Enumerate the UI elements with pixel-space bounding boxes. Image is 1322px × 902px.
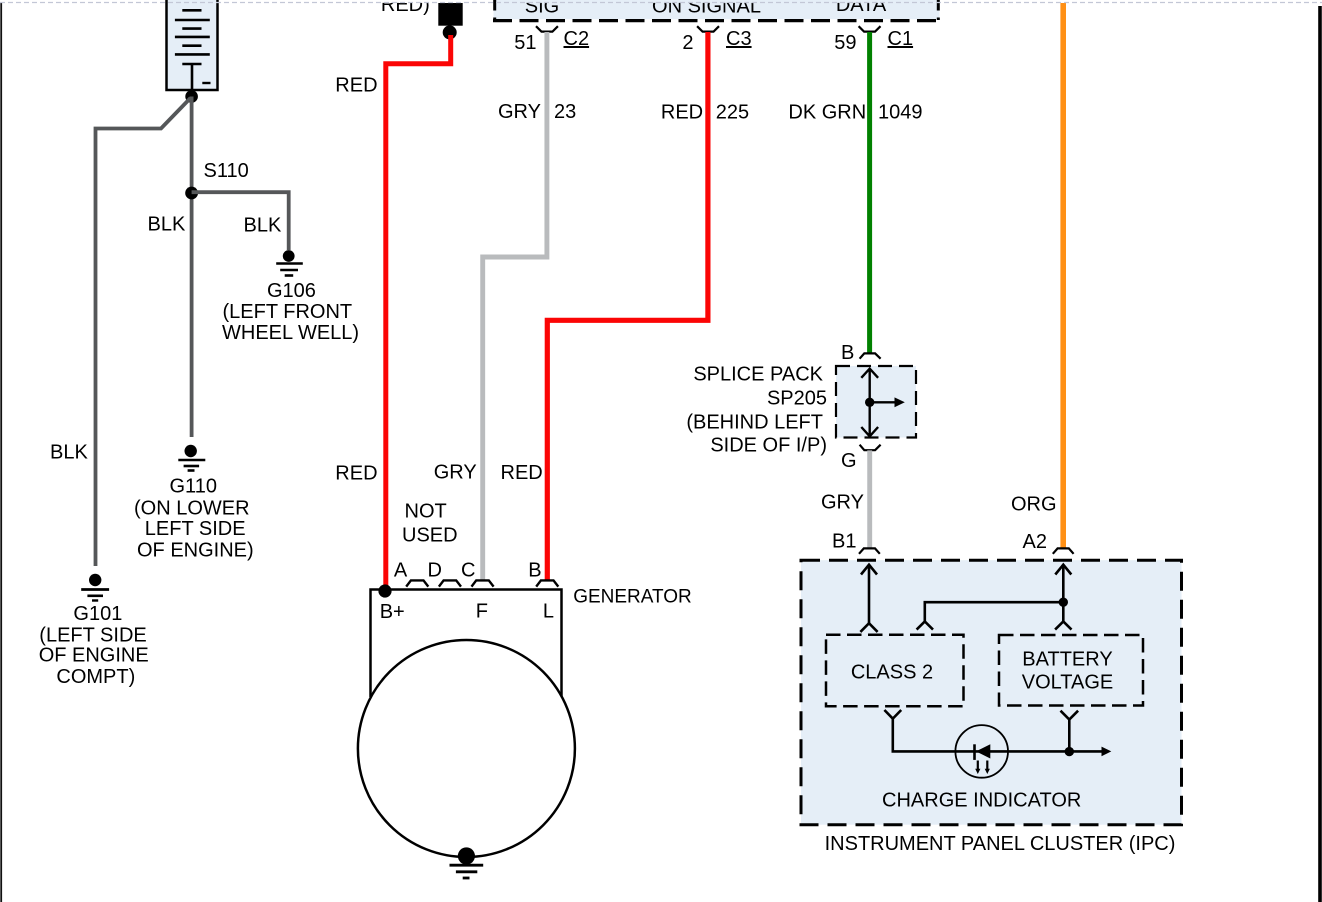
- IPC A2 internal arrow: [1055, 565, 1071, 630]
- LED cathode bar: [973, 744, 976, 760]
- svg-text:2: 2: [682, 32, 693, 54]
- svg-text:225: 225: [716, 102, 749, 124]
- battery junction dot: [185, 90, 198, 103]
- CLASS 2 box: [826, 635, 964, 707]
- svg-text:GENERATOR: GENERATOR: [573, 587, 692, 608]
- wire BLK battery to S110 to G110: [190, 97, 194, 438]
- generator ground symbol: [450, 865, 484, 878]
- svg-text:CLASS 2: CLASS 2: [851, 662, 933, 684]
- generator terminal hump D: [406, 580, 428, 586]
- IPC B1 internal arrow: [860, 565, 877, 632]
- BATTERY VOLTAGE output Y and wire: [1061, 711, 1079, 752]
- top connector box fill: [494, 0, 940, 19]
- splice S110 dot: [185, 187, 198, 200]
- pin 59 connector cup: [859, 26, 881, 31]
- svg-text:1049: 1049: [878, 102, 923, 124]
- top connector box left dashed edge: [493, 0, 496, 20]
- svg-text:ORG: ORG: [1011, 494, 1057, 516]
- svg-text:(LEFT FRONT: (LEFT FRONT: [223, 301, 353, 323]
- svg-text:(LEFT SIDE: (LEFT SIDE: [39, 625, 146, 647]
- svg-text:BLK: BLK: [50, 442, 88, 464]
- charge indicator junction dot: [1065, 747, 1074, 756]
- battery B1 fill: [167, 0, 218, 90]
- battery plate short 1: [182, 9, 201, 12]
- generator B+ junction dot: [378, 584, 391, 597]
- svg-text:GRY: GRY: [434, 462, 477, 484]
- svg-text:A2: A2: [1023, 531, 1047, 553]
- svg-text:51: 51: [514, 32, 536, 54]
- generator terminal hump C/F: [472, 580, 494, 586]
- IPC B1 connector hump: [859, 548, 880, 553]
- svg-text:C: C: [461, 560, 475, 582]
- svg-text:G110: G110: [170, 476, 217, 498]
- connector black block: [438, 3, 462, 26]
- svg-text:WHEEL WELL): WHEEL WELL): [222, 322, 359, 344]
- wire RED pin 2 to generator L: [547, 32, 708, 580]
- battery minus sign: [202, 82, 210, 84]
- svg-text:CHARGE INDICATOR: CHARGE INDICATOR: [882, 789, 1081, 811]
- frame left border: [0, 2, 2, 902]
- svg-text:G106: G106: [267, 280, 316, 302]
- BATTERY VOLTAGE box: [999, 635, 1143, 706]
- svg-text:BLK: BLK: [244, 215, 282, 237]
- svg-text:B: B: [528, 560, 541, 582]
- IPC A2 connector hump: [1053, 548, 1074, 553]
- LED triangle: [976, 744, 990, 758]
- svg-text:USED: USED: [402, 525, 458, 547]
- ground G110: [178, 445, 205, 471]
- IPC A2 junction dot: [1059, 598, 1068, 607]
- generator terminal hump B/L: [536, 580, 558, 586]
- svg-text:59: 59: [834, 32, 856, 54]
- top connector box right dashed edge: [937, 0, 940, 20]
- svg-text:SP205: SP205: [767, 388, 827, 410]
- svg-text:SPLICE PACK: SPLICE PACK: [693, 364, 823, 386]
- battery plate short 2: [182, 27, 201, 30]
- svg-text:OF ENGINE: OF ENGINE: [39, 645, 149, 667]
- svg-text:VOLTAGE: VOLTAGE: [1022, 672, 1114, 694]
- svg-text:B+: B+: [380, 601, 405, 623]
- splice pack right arrow: [870, 401, 895, 403]
- IPC branch wire to CLASS 2: [925, 602, 1064, 621]
- svg-text:G: G: [841, 450, 857, 472]
- splice pack G connector cup: [860, 445, 881, 451]
- svg-text:G101: G101: [73, 603, 122, 625]
- wire GRY pin 51 to generator F: [483, 32, 547, 580]
- svg-text:A: A: [394, 560, 408, 582]
- battery plate short 3: [182, 44, 201, 47]
- svg-text:INSTRUMENT PANEL CLUSTER (IPC): INSTRUMENT PANEL CLUSTER (IPC): [825, 833, 1176, 855]
- svg-text:RED: RED: [501, 462, 543, 484]
- battery B1 outline: [167, 0, 218, 90]
- LED circle: [955, 725, 1008, 778]
- connector block dot: [443, 25, 457, 39]
- output arrowhead: [1102, 747, 1112, 757]
- wire BLK S110 to G106: [192, 192, 289, 250]
- svg-text:RED: RED: [335, 75, 377, 97]
- wire GRY splice to IPC B1: [867, 450, 872, 547]
- IPC box: [801, 560, 1182, 825]
- svg-text:23: 23: [554, 101, 576, 123]
- svg-text:COMPT): COMPT): [56, 666, 135, 688]
- LED emission arrow 2: [986, 761, 988, 770]
- battery plate long 2: [175, 36, 210, 39]
- splice pack B connector hump: [860, 353, 881, 358]
- svg-text:LEFT SIDE: LEFT SIDE: [145, 518, 246, 540]
- svg-text:GRY: GRY: [821, 492, 864, 514]
- generator circle: [358, 640, 575, 857]
- svg-text:RED: RED: [335, 462, 377, 484]
- svg-text:BLK: BLK: [148, 214, 186, 236]
- frame right border: [1318, 6, 1322, 902]
- wire RED battery feed to generator B+: [386, 35, 451, 590]
- svg-text:NOT: NOT: [405, 501, 447, 523]
- svg-text:B1: B1: [832, 531, 856, 553]
- frame top dashed border: [0, 2, 1322, 4]
- svg-text:GRY: GRY: [498, 101, 541, 123]
- svg-text:D: D: [428, 560, 442, 582]
- svg-text:C2: C2: [564, 28, 590, 50]
- svg-text:OF ENGINE): OF ENGINE): [137, 540, 254, 562]
- generator rectangle: [371, 590, 562, 698]
- svg-text:F: F: [476, 601, 488, 623]
- splice pack vertical double arrow: [861, 369, 878, 437]
- ground G106: [276, 250, 303, 275]
- svg-text:SIDE OF I/P): SIDE OF I/P): [710, 435, 827, 457]
- ground G101: [81, 574, 109, 601]
- svg-text:RED: RED: [661, 102, 703, 124]
- wire BLK battery to G101: [96, 98, 191, 566]
- svg-text:DK GRN: DK GRN: [788, 102, 866, 124]
- svg-text:(ON LOWER: (ON LOWER: [134, 498, 250, 520]
- svg-text:L: L: [543, 601, 554, 623]
- battery plate long 1: [175, 19, 210, 22]
- pin 51 connector cup: [536, 26, 558, 31]
- CLASS 2 output Y and wire to charge indicator: [884, 710, 1102, 751]
- svg-text:BATTERY: BATTERY: [1022, 649, 1112, 671]
- pin 2 connector cup: [697, 26, 719, 31]
- splice pack junction dot: [865, 398, 874, 407]
- wire ORG to IPC A2: [1060, 3, 1066, 548]
- wire DK GRN pin 59 to splice pack B: [867, 32, 872, 353]
- generator ground dot: [458, 847, 475, 864]
- generator terminal hump 2: [439, 580, 461, 586]
- svg-text:S110: S110: [204, 160, 249, 182]
- svg-text:C1: C1: [888, 28, 914, 50]
- battery negative plate with stem: [182, 64, 201, 90]
- svg-text:B: B: [841, 342, 854, 364]
- svg-text:(BEHIND LEFT: (BEHIND LEFT: [686, 412, 823, 434]
- top connector box bottom dashed edge: [493, 19, 940, 22]
- splice pack SP205 box: [836, 366, 916, 438]
- LED emission arrow 1: [977, 761, 979, 770]
- svg-text:C3: C3: [726, 28, 752, 50]
- battery plate long 3: [175, 53, 210, 56]
